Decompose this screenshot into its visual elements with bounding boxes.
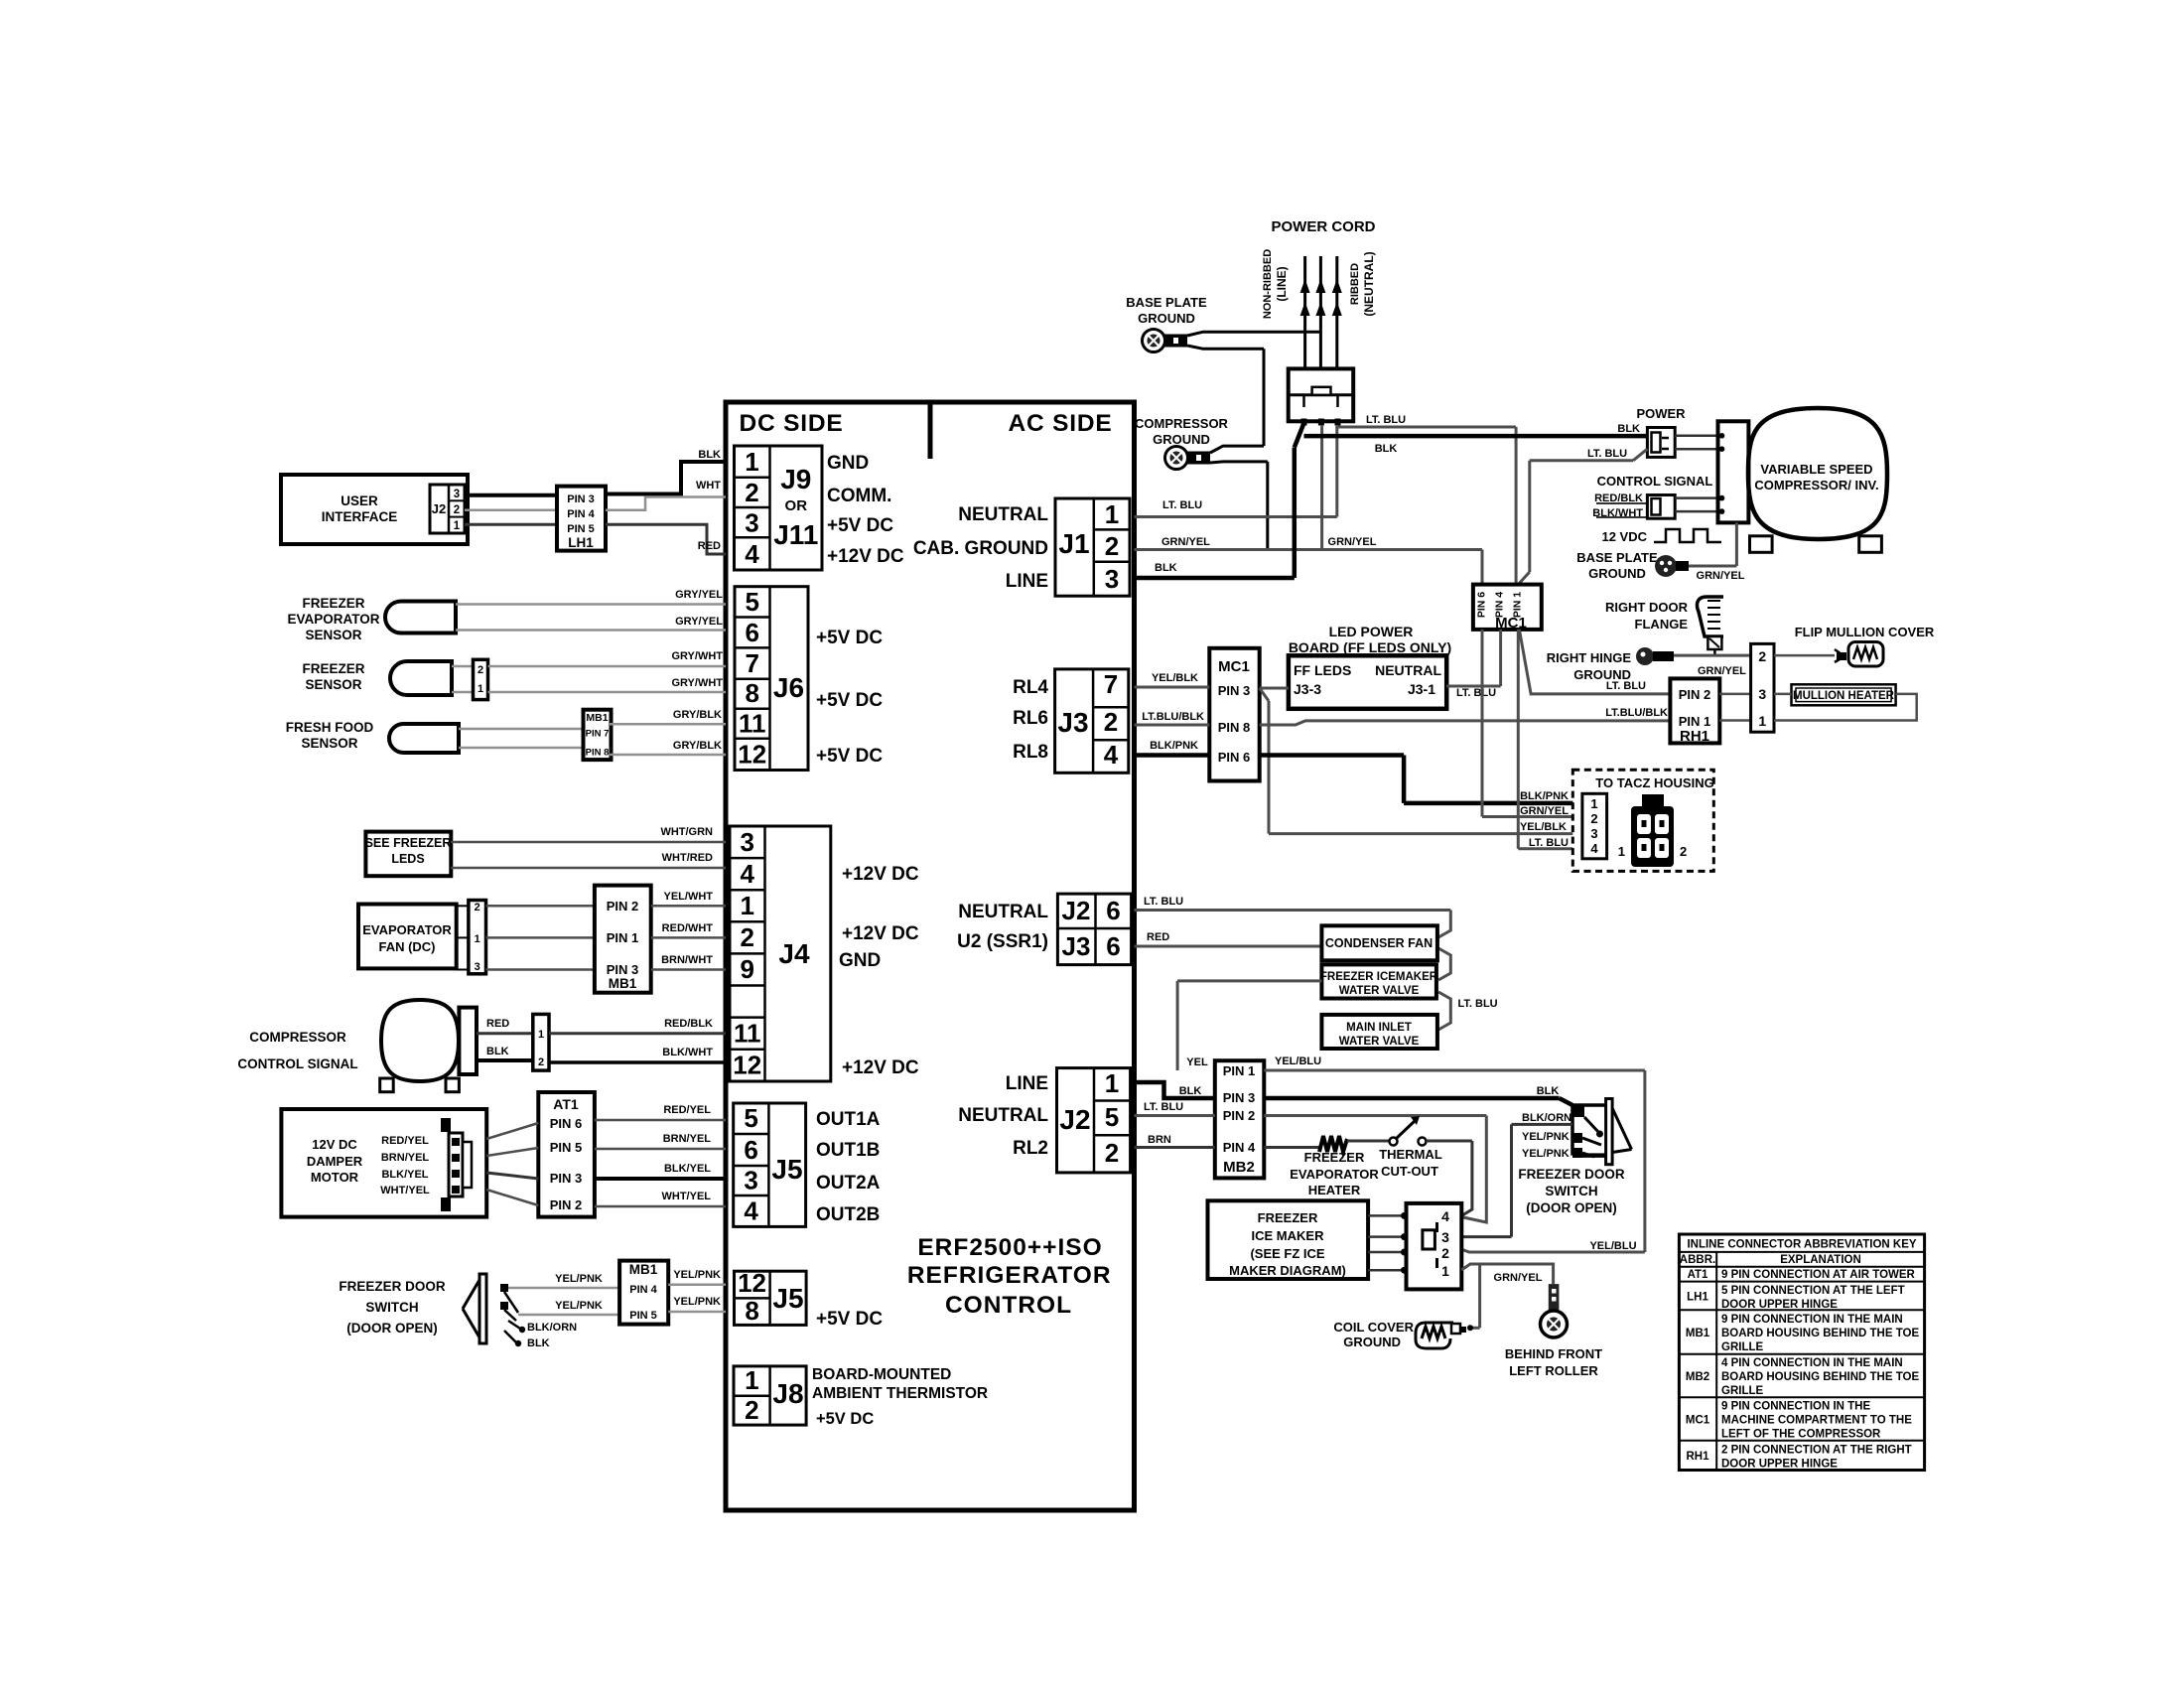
svg-text:7: 7: [746, 648, 759, 678]
svg-text:GRN/YEL: GRN/YEL: [1697, 570, 1745, 582]
svg-text:GRN/YEL: GRN/YEL: [1161, 536, 1210, 548]
svg-text:BLK: BLK: [1179, 1085, 1202, 1097]
svg-text:MC1: MC1: [1495, 615, 1527, 632]
svg-text:DC SIDE: DC SIDE: [740, 410, 844, 437]
svg-text:U2 (SSR1): U2 (SSR1): [957, 931, 1048, 952]
svg-text:AMBIENT THERMISTOR: AMBIENT THERMISTOR: [812, 1385, 988, 1402]
svg-text:RL8: RL8: [1013, 742, 1048, 763]
svg-text:DOOR UPPER HINGE: DOOR UPPER HINGE: [1721, 1299, 1838, 1311]
svg-text:6: 6: [746, 618, 759, 647]
svg-text:J2: J2: [432, 501, 446, 516]
svg-text:BLK: BLK: [486, 1046, 509, 1057]
svg-text:+5V DC: +5V DC: [816, 690, 883, 711]
svg-text:8: 8: [745, 1296, 758, 1326]
svg-text:MB2: MB2: [1223, 1159, 1255, 1176]
svg-text:LT. BLU: LT. BLU: [1162, 499, 1202, 511]
svg-text:3: 3: [1758, 686, 1766, 702]
svg-text:RIGHT HINGE: RIGHT HINGE: [1547, 650, 1632, 665]
svg-text:EVAPORATOR: EVAPORATOR: [1290, 1167, 1379, 1182]
svg-text:1: 1: [745, 1365, 758, 1395]
svg-text:GRY/WHT: GRY/WHT: [671, 650, 723, 662]
svg-text:CONTROL SIGNAL: CONTROL SIGNAL: [1597, 474, 1713, 489]
svg-text:J6: J6: [773, 672, 804, 703]
svg-text:J5: J5: [772, 1283, 803, 1314]
svg-text:BLK/PNK: BLK/PNK: [1520, 790, 1569, 802]
svg-text:LEFT OF THE COMPRESSOR: LEFT OF THE COMPRESSOR: [1721, 1429, 1881, 1441]
svg-text:EVAPORATOR: EVAPORATOR: [287, 612, 379, 627]
svg-text:BRN/YEL: BRN/YEL: [663, 1133, 712, 1145]
svg-text:1: 1: [454, 520, 461, 532]
svg-text:2: 2: [1105, 1138, 1119, 1168]
svg-text:LT. BLU: LT. BLU: [1366, 414, 1406, 426]
svg-text:8: 8: [746, 678, 759, 708]
svg-text:LINE: LINE: [1006, 1073, 1048, 1094]
svg-text:SENSOR: SENSOR: [305, 677, 361, 692]
svg-text:J11: J11: [773, 519, 818, 550]
svg-text:FREEZER ICEMAKER: FREEZER ICEMAKER: [1320, 971, 1438, 983]
svg-text:SEE FREEZER: SEE FREEZER: [365, 836, 452, 850]
svg-text:3: 3: [744, 1166, 757, 1196]
svg-text:LT. BLU: LT. BLU: [1529, 837, 1569, 849]
svg-text:WHT/GRN: WHT/GRN: [660, 826, 713, 838]
svg-text:BLK: BLK: [1375, 443, 1398, 455]
svg-text:GROUND: GROUND: [1343, 1335, 1401, 1349]
svg-text:CUT-OUT: CUT-OUT: [1381, 1164, 1438, 1179]
svg-text:OUT1B: OUT1B: [816, 1140, 880, 1161]
svg-text:9 PIN CONNECTION IN THE MAIN: 9 PIN CONNECTION IN THE MAIN: [1721, 1314, 1903, 1326]
svg-text:GRY/BLK: GRY/BLK: [673, 709, 722, 721]
svg-text:PIN 2: PIN 2: [1679, 687, 1711, 702]
svg-text:FLIP MULLION COVER: FLIP MULLION COVER: [1795, 625, 1935, 639]
svg-text:BLK/PNK: BLK/PNK: [1150, 740, 1198, 752]
svg-text:1: 1: [1618, 844, 1625, 859]
svg-text:+12V DC: +12V DC: [842, 1057, 919, 1078]
svg-text:BLK/ORN: BLK/ORN: [1522, 1112, 1571, 1124]
svg-text:1: 1: [745, 447, 758, 477]
svg-text:USER: USER: [341, 493, 378, 508]
svg-text:9 PIN CONNECTION AT AIR TOWER: 9 PIN CONNECTION AT AIR TOWER: [1721, 1269, 1916, 1281]
svg-text:BRN/YEL: BRN/YEL: [381, 1152, 430, 1164]
svg-text:BLK/ORN: BLK/ORN: [527, 1322, 577, 1334]
svg-text:POWER: POWER: [1636, 406, 1686, 421]
svg-text:BLK: BLK: [698, 449, 721, 461]
svg-text:MB1: MB1: [629, 1262, 658, 1277]
svg-text:CAB. GROUND: CAB. GROUND: [913, 538, 1048, 559]
svg-text:5 PIN CONNECTION AT THE LEFT: 5 PIN CONNECTION AT THE LEFT: [1721, 1285, 1905, 1297]
svg-text:6: 6: [1106, 931, 1120, 961]
svg-text:CONTROL: CONTROL: [945, 1292, 1072, 1319]
svg-text:+12V DC: +12V DC: [827, 546, 904, 567]
svg-text:12: 12: [738, 1268, 766, 1298]
svg-text:PIN 4: PIN 4: [1223, 1140, 1256, 1155]
svg-text:BRN: BRN: [1148, 1134, 1171, 1146]
svg-text:1: 1: [475, 933, 480, 945]
svg-text:OUT2A: OUT2A: [816, 1173, 881, 1194]
svg-text:BOARD HOUSING BEHIND THE TOE: BOARD HOUSING BEHIND THE TOE: [1721, 1371, 1919, 1383]
svg-text:THERMAL: THERMAL: [1379, 1147, 1442, 1162]
svg-text:RED: RED: [1147, 931, 1169, 943]
svg-text:3: 3: [745, 508, 758, 538]
svg-text:BLK: BLK: [1617, 423, 1640, 435]
svg-text:12 VDC: 12 VDC: [1601, 529, 1647, 544]
svg-text:LINE: LINE: [1006, 571, 1048, 592]
svg-text:3: 3: [475, 961, 480, 973]
svg-text:2: 2: [475, 902, 480, 914]
svg-text:GRILLE: GRILLE: [1721, 1385, 1763, 1397]
svg-text:PIN 5: PIN 5: [629, 1310, 657, 1322]
svg-text:FREEZER: FREEZER: [302, 661, 364, 676]
svg-text:1: 1: [1758, 713, 1766, 729]
svg-text:+5V DC: +5V DC: [816, 628, 883, 648]
svg-text:DOOR UPPER HINGE: DOOR UPPER HINGE: [1721, 1459, 1838, 1471]
svg-text:GRN/YEL: GRN/YEL: [1328, 536, 1377, 548]
svg-text:LT. BLU: LT. BLU: [1456, 687, 1496, 699]
svg-text:NON-RIBBED: NON-RIBBED: [1262, 249, 1274, 319]
svg-text:+5V DC: +5V DC: [816, 1410, 874, 1428]
svg-text:MAKER DIAGRAM): MAKER DIAGRAM): [1229, 1263, 1346, 1278]
svg-text:J3-3: J3-3: [1294, 681, 1321, 697]
svg-text:PIN 1: PIN 1: [1223, 1063, 1256, 1078]
svg-text:INTERFACE: INTERFACE: [322, 509, 398, 524]
svg-text:FREEZER: FREEZER: [302, 596, 364, 611]
svg-text:RH1: RH1: [1680, 728, 1709, 745]
svg-text:REFRIGERATOR: REFRIGERATOR: [907, 1262, 1112, 1289]
svg-text:YEL/BLK: YEL/BLK: [1520, 821, 1567, 833]
svg-text:RL6: RL6: [1013, 708, 1048, 729]
svg-text:PIN 5: PIN 5: [550, 1140, 583, 1155]
svg-text:OUT1A: OUT1A: [816, 1109, 881, 1130]
svg-text:J5: J5: [771, 1154, 802, 1185]
svg-text:LT. BLU: LT. BLU: [1144, 896, 1183, 908]
svg-text:NEUTRAL: NEUTRAL: [1375, 662, 1441, 678]
svg-text:EXPLANATION: EXPLANATION: [1780, 1254, 1861, 1266]
svg-text:MB1: MB1: [609, 976, 637, 991]
svg-text:WHT/YEL: WHT/YEL: [380, 1185, 430, 1196]
svg-text:NEUTRAL: NEUTRAL: [958, 504, 1048, 525]
svg-text:2 PIN CONNECTION AT THE RIGHT: 2 PIN CONNECTION AT THE RIGHT: [1721, 1445, 1912, 1457]
svg-text:9 PIN CONNECTION IN THE: 9 PIN CONNECTION IN THE: [1721, 1401, 1870, 1413]
svg-text:1: 1: [538, 1029, 544, 1041]
svg-text:(LINE): (LINE): [1275, 266, 1289, 301]
svg-text:SWITCH: SWITCH: [365, 1300, 418, 1315]
svg-text:RED/YEL: RED/YEL: [381, 1135, 429, 1147]
svg-text:GRY/YEL: GRY/YEL: [675, 616, 723, 628]
svg-text:FLANGE: FLANGE: [1635, 617, 1689, 632]
svg-text:CONTROL SIGNAL: CONTROL SIGNAL: [237, 1056, 357, 1071]
svg-text:GRILLE: GRILLE: [1721, 1341, 1763, 1353]
svg-text:PIN 1: PIN 1: [607, 930, 639, 945]
svg-text:OUT2B: OUT2B: [816, 1204, 880, 1225]
svg-text:ICE MAKER: ICE MAKER: [1252, 1228, 1325, 1243]
svg-text:BLK: BLK: [1537, 1085, 1560, 1097]
svg-text:2: 2: [478, 664, 483, 676]
svg-text:LT. BLU: LT. BLU: [1587, 448, 1627, 460]
svg-text:YEL/PNK: YEL/PNK: [1522, 1131, 1570, 1143]
svg-text:TO TACZ HOUSING: TO TACZ HOUSING: [1595, 775, 1713, 790]
svg-text:YEL/BLK: YEL/BLK: [1152, 672, 1198, 684]
svg-text:BOARD HOUSING BEHIND THE TOE: BOARD HOUSING BEHIND THE TOE: [1721, 1328, 1919, 1339]
svg-text:1: 1: [478, 683, 483, 695]
svg-text:2: 2: [1441, 1245, 1449, 1261]
svg-text:GROUND: GROUND: [1588, 566, 1646, 581]
svg-text:EVAPORATOR: EVAPORATOR: [362, 922, 452, 937]
svg-text:PIN 3: PIN 3: [1218, 683, 1251, 698]
svg-text:6: 6: [744, 1135, 757, 1165]
svg-text:MOTOR: MOTOR: [311, 1170, 359, 1185]
svg-text:3: 3: [454, 489, 460, 500]
svg-text:GROUND: GROUND: [1573, 667, 1631, 682]
svg-text:LT.BLU/BLK: LT.BLU/BLK: [1142, 711, 1204, 723]
svg-text:J8: J8: [772, 1378, 803, 1409]
svg-text:COIL COVER: COIL COVER: [1333, 1320, 1414, 1335]
svg-text:RL4: RL4: [1013, 677, 1048, 698]
svg-text:VARIABLE SPEED: VARIABLE SPEED: [1760, 462, 1872, 477]
svg-text:SENSOR: SENSOR: [305, 628, 361, 642]
svg-text:1: 1: [1590, 796, 1597, 811]
svg-text:GROUND: GROUND: [1138, 311, 1195, 326]
svg-text:PIN 2: PIN 2: [550, 1197, 583, 1212]
svg-text:LH1: LH1: [1687, 1292, 1708, 1304]
svg-text:WHT: WHT: [696, 480, 721, 492]
svg-text:MB1: MB1: [1686, 1328, 1710, 1339]
svg-text:SWITCH: SWITCH: [1545, 1184, 1597, 1198]
svg-text:LH1: LH1: [568, 535, 594, 550]
svg-text:MB2: MB2: [1686, 1371, 1709, 1383]
svg-text:2: 2: [538, 1056, 544, 1068]
svg-text:PIN 8: PIN 8: [586, 748, 610, 759]
svg-text:FREEZER: FREEZER: [1304, 1150, 1365, 1165]
svg-text:+12V DC: +12V DC: [842, 864, 919, 885]
svg-text:J3: J3: [1057, 707, 1088, 738]
svg-text:GRN/YEL: GRN/YEL: [1494, 1272, 1543, 1284]
svg-text:GRY/YEL: GRY/YEL: [675, 589, 723, 601]
svg-text:2: 2: [1680, 844, 1687, 859]
svg-text:INLINE CONNECTOR ABBREVIATION: INLINE CONNECTOR ABBREVIATION KEY: [1687, 1239, 1916, 1251]
svg-text:J4: J4: [778, 938, 810, 969]
svg-text:SENSOR: SENSOR: [301, 736, 357, 751]
svg-text:3: 3: [741, 827, 754, 857]
svg-text:FREEZER DOOR: FREEZER DOOR: [339, 1279, 446, 1294]
svg-text:NEUTRAL: NEUTRAL: [958, 1105, 1048, 1126]
svg-text:GRN/YEL: GRN/YEL: [1520, 805, 1569, 817]
svg-text:7: 7: [1104, 669, 1118, 699]
svg-text:4: 4: [741, 859, 755, 889]
svg-text:ERF2500++ISO: ERF2500++ISO: [917, 1234, 1102, 1261]
svg-text:4 PIN CONNECTION IN THE MAIN: 4 PIN CONNECTION IN THE MAIN: [1721, 1357, 1903, 1369]
svg-text:9: 9: [741, 954, 754, 984]
svg-text:WHT/RED: WHT/RED: [662, 852, 713, 864]
svg-text:11: 11: [734, 1019, 761, 1049]
svg-text:2: 2: [745, 1395, 758, 1425]
svg-text:J2: J2: [1059, 1104, 1090, 1135]
svg-text:(SEE FZ ICE: (SEE FZ ICE: [1250, 1246, 1324, 1261]
svg-text:4: 4: [745, 539, 759, 569]
svg-text:MC1: MC1: [1218, 658, 1250, 675]
svg-text:YEL/PNK: YEL/PNK: [555, 1300, 603, 1312]
svg-text:WATER VALVE: WATER VALVE: [1339, 985, 1420, 997]
svg-text:DAMPER: DAMPER: [307, 1154, 363, 1169]
svg-text:12: 12: [733, 1051, 761, 1080]
svg-text:AT1: AT1: [1688, 1269, 1708, 1281]
svg-text:BASE PLATE: BASE PLATE: [1576, 550, 1658, 565]
svg-text:J2: J2: [1062, 896, 1091, 925]
svg-text:HEATER: HEATER: [1308, 1183, 1361, 1197]
svg-text:PIN 6: PIN 6: [550, 1116, 583, 1131]
svg-text:RED/BLK: RED/BLK: [664, 1018, 713, 1030]
svg-text:YEL/PNK: YEL/PNK: [673, 1296, 721, 1308]
svg-text:MACHINE COMPARTMENT TO THE: MACHINE COMPARTMENT TO THE: [1721, 1415, 1912, 1427]
svg-text:LEFT ROLLER: LEFT ROLLER: [1509, 1363, 1598, 1378]
svg-text:J3-1: J3-1: [1408, 681, 1435, 697]
svg-text:2: 2: [1590, 811, 1597, 826]
svg-text:BLK: BLK: [527, 1337, 550, 1349]
svg-text:LEDS: LEDS: [391, 852, 424, 866]
svg-text:3: 3: [1105, 564, 1119, 594]
svg-text:J1: J1: [1058, 528, 1089, 559]
svg-text:MAIN INLET: MAIN INLET: [1346, 1022, 1412, 1034]
svg-text:PIN 1: PIN 1: [1679, 714, 1711, 729]
svg-text:11: 11: [739, 709, 766, 739]
svg-text:LT. BLU: LT. BLU: [1144, 1101, 1183, 1113]
svg-text:YEL/BLU: YEL/BLU: [1589, 1240, 1636, 1252]
svg-text:YEL: YEL: [1186, 1056, 1208, 1068]
svg-text:PIN 2: PIN 2: [607, 899, 639, 914]
svg-text:MULLION HEATER: MULLION HEATER: [1793, 690, 1895, 702]
svg-text:BRN/WHT: BRN/WHT: [661, 954, 713, 966]
svg-text:MC1: MC1: [1686, 1415, 1710, 1427]
svg-text:2: 2: [1758, 648, 1766, 664]
svg-text:PIN 7: PIN 7: [586, 729, 610, 740]
svg-text:NEUTRAL: NEUTRAL: [958, 902, 1048, 922]
svg-text:FAN (DC): FAN (DC): [378, 939, 435, 954]
svg-text:PIN 4: PIN 4: [567, 508, 595, 520]
svg-text:CONDENSER FAN: CONDENSER FAN: [1325, 936, 1433, 950]
svg-text:COMPRESSOR: COMPRESSOR: [249, 1030, 346, 1045]
svg-text:4: 4: [1104, 740, 1119, 770]
svg-text:ABBR.: ABBR.: [1680, 1254, 1715, 1266]
svg-text:2: 2: [454, 504, 460, 516]
svg-text:WATER VALVE: WATER VALVE: [1339, 1036, 1420, 1048]
svg-text:RED: RED: [486, 1018, 509, 1030]
svg-text:RH1: RH1: [1686, 1451, 1709, 1463]
svg-text:J3: J3: [1062, 931, 1091, 961]
svg-text:FF LEDS: FF LEDS: [1294, 662, 1351, 678]
svg-text:PIN 3: PIN 3: [1223, 1090, 1256, 1105]
svg-text:RIGHT DOOR: RIGHT DOOR: [1605, 600, 1689, 615]
svg-text:2: 2: [741, 922, 754, 952]
svg-text:12: 12: [738, 740, 766, 770]
svg-text:BLK/WHT: BLK/WHT: [662, 1047, 713, 1058]
svg-text:GROUND: GROUND: [1153, 432, 1210, 447]
svg-text:(DOOR OPEN): (DOOR OPEN): [1526, 1200, 1617, 1215]
svg-text:COMPRESSOR: COMPRESSOR: [1135, 416, 1229, 431]
svg-text:GRN/YEL: GRN/YEL: [1698, 665, 1746, 677]
svg-text:BOARD-MOUNTED: BOARD-MOUNTED: [812, 1366, 951, 1383]
svg-text:YEL/WHT: YEL/WHT: [664, 891, 714, 903]
svg-text:2: 2: [1105, 531, 1119, 561]
svg-text:PIN 4: PIN 4: [629, 1284, 657, 1296]
svg-text:1: 1: [1105, 499, 1119, 529]
svg-text:RL2: RL2: [1013, 1138, 1048, 1159]
svg-text:LT.BLU/BLK: LT.BLU/BLK: [1605, 707, 1668, 719]
svg-text:FREEZER: FREEZER: [1258, 1210, 1318, 1225]
svg-text:J9: J9: [780, 464, 811, 494]
svg-text:3: 3: [1590, 826, 1597, 841]
svg-text:5: 5: [744, 1103, 757, 1133]
svg-text:BASE PLATE: BASE PLATE: [1126, 295, 1207, 310]
svg-text:PIN 6: PIN 6: [1218, 750, 1251, 765]
svg-text:YEL/PNK: YEL/PNK: [673, 1269, 721, 1281]
svg-text:2: 2: [745, 478, 758, 507]
svg-text:RED: RED: [698, 540, 721, 552]
svg-text:2: 2: [1104, 707, 1118, 737]
svg-text:PIN 3: PIN 3: [567, 493, 595, 505]
svg-text:BOARD (FF LEDS ONLY): BOARD (FF LEDS ONLY): [1289, 639, 1451, 655]
svg-text:FRESH FOOD: FRESH FOOD: [286, 720, 374, 735]
svg-text:(DOOR OPEN): (DOOR OPEN): [346, 1321, 438, 1336]
svg-text:GND: GND: [839, 950, 881, 971]
svg-text:FREEZER DOOR: FREEZER DOOR: [1518, 1167, 1625, 1182]
svg-text:GRY/WHT: GRY/WHT: [671, 677, 723, 689]
svg-text:1: 1: [1105, 1068, 1119, 1098]
svg-text:1: 1: [741, 891, 754, 920]
svg-text:YEL/PNK: YEL/PNK: [555, 1273, 603, 1285]
svg-text:YEL/BLU: YEL/BLU: [1275, 1055, 1321, 1067]
svg-text:4: 4: [1441, 1208, 1449, 1224]
svg-text:12V DC: 12V DC: [312, 1137, 357, 1152]
svg-text:5: 5: [1105, 1102, 1119, 1132]
svg-text:YEL/PNK: YEL/PNK: [1522, 1148, 1570, 1160]
svg-text:1: 1: [1441, 1263, 1449, 1279]
svg-text:LED POWER: LED POWER: [1329, 624, 1414, 639]
svg-text:+5V DC: +5V DC: [827, 515, 893, 536]
svg-text:OR: OR: [785, 497, 808, 514]
svg-text:4: 4: [1590, 841, 1598, 856]
svg-text:COMM.: COMM.: [827, 486, 891, 506]
svg-text:6: 6: [1106, 896, 1120, 925]
svg-text:PIN 3: PIN 3: [550, 1171, 583, 1186]
svg-text:RED/WHT: RED/WHT: [662, 922, 714, 934]
svg-text:WHT/YEL: WHT/YEL: [662, 1191, 712, 1202]
svg-text:RIBBED: RIBBED: [1349, 263, 1361, 305]
svg-text:POWER CORD: POWER CORD: [1272, 218, 1376, 235]
svg-text:MB1: MB1: [586, 712, 608, 724]
svg-text:PIN 8: PIN 8: [1218, 720, 1251, 735]
svg-text:5: 5: [746, 587, 759, 617]
svg-text:+5V DC: +5V DC: [816, 1309, 883, 1330]
svg-text:GND: GND: [827, 453, 869, 474]
svg-text:3: 3: [1441, 1229, 1449, 1245]
svg-text:BLK/YEL: BLK/YEL: [664, 1163, 711, 1175]
svg-text:+5V DC: +5V DC: [816, 746, 883, 767]
svg-text:PIN 6: PIN 6: [1476, 592, 1488, 618]
svg-text:BLK: BLK: [1155, 562, 1177, 574]
svg-text:AC SIDE: AC SIDE: [1009, 410, 1113, 437]
svg-text:RED/YEL: RED/YEL: [663, 1104, 711, 1116]
svg-text:PIN 2: PIN 2: [1223, 1108, 1256, 1123]
svg-text:4: 4: [744, 1196, 758, 1226]
svg-text:LT. BLU: LT. BLU: [1458, 998, 1498, 1010]
svg-text:BLK/YEL: BLK/YEL: [381, 1169, 428, 1181]
svg-text:AT1: AT1: [553, 1096, 579, 1112]
svg-text:(NEUTRAL): (NEUTRAL): [1362, 251, 1376, 316]
svg-text:BEHIND FRONT: BEHIND FRONT: [1505, 1346, 1602, 1361]
svg-text:PIN 3: PIN 3: [607, 962, 639, 977]
svg-text:+12V DC: +12V DC: [842, 923, 919, 944]
svg-text:COMPRESSOR/ INV.: COMPRESSOR/ INV.: [1754, 478, 1878, 492]
svg-text:PIN 5: PIN 5: [567, 523, 595, 535]
svg-text:GRY/BLK: GRY/BLK: [673, 740, 722, 752]
